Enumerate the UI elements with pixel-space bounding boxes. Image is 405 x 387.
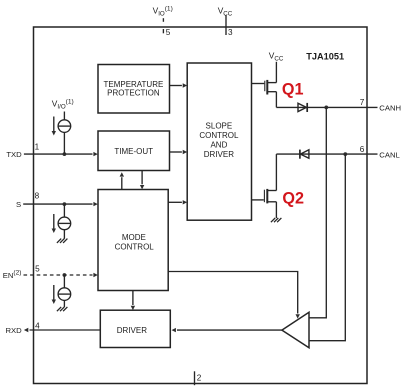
svg-text:CONTROL: CONTROL xyxy=(199,131,239,140)
svg-text:Q1: Q1 xyxy=(282,80,304,98)
ground (below I3) xyxy=(57,307,61,311)
svg-text:4: 4 xyxy=(35,322,40,331)
svg-text:CONTROL: CONTROL xyxy=(115,242,155,251)
svg-text:TEMPERATURE: TEMPERATURE xyxy=(103,80,163,89)
svg-text:7: 7 xyxy=(360,98,365,107)
svg-text:3: 3 xyxy=(228,28,233,37)
op-amp receiver xyxy=(282,312,309,347)
wire mode control to driver (down arrow) xyxy=(132,291,134,306)
block temperature protection xyxy=(98,65,170,114)
diode D1 (to CANH) xyxy=(298,103,306,111)
wire CANH line xyxy=(276,106,377,108)
transistor Q2 xyxy=(275,154,277,190)
svg-text:8: 8 xyxy=(35,192,40,201)
block time-out xyxy=(98,131,170,171)
wire time-out to mode control (down arrow) xyxy=(141,171,143,185)
node EN junction xyxy=(63,273,67,277)
svg-text:6: 6 xyxy=(360,145,365,154)
svg-text:TIME-OUT: TIME-OUT xyxy=(114,147,153,156)
svg-text:RXD: RXD xyxy=(5,326,22,335)
diode D2 (from CANL) xyxy=(300,150,309,159)
block mode control xyxy=(98,190,168,291)
wire temperature protection to slope control xyxy=(170,85,182,87)
wire pin5 VIO dashed supply xyxy=(162,18,164,22)
svg-text:VIO(1): VIO(1) xyxy=(153,5,173,17)
svg-text:VCC: VCC xyxy=(269,51,284,63)
svg-text:MODE: MODE xyxy=(122,233,146,242)
svg-text:PROTECTION: PROTECTION xyxy=(107,89,160,98)
node S junction xyxy=(63,202,67,206)
arrow current direction I1 xyxy=(53,117,55,132)
svg-text:TJA1051: TJA1051 xyxy=(306,52,344,62)
block slope control and driver xyxy=(187,63,251,220)
current source I1 (TXD pull-up) xyxy=(63,112,65,120)
wire slope control to Q2 gate xyxy=(252,199,264,201)
wire mode control to receiver enable xyxy=(168,272,298,314)
svg-text:Q2: Q2 xyxy=(282,189,304,207)
ground (Q2 source) xyxy=(271,218,275,222)
svg-text:5: 5 xyxy=(166,28,171,37)
svg-text:EN(2): EN(2) xyxy=(3,270,22,280)
wire RXD output xyxy=(30,329,101,331)
node CANH junction xyxy=(324,106,328,110)
svg-text:CANL: CANL xyxy=(379,150,400,159)
svg-text:DRIVER: DRIVER xyxy=(204,150,234,159)
svg-text:SLOPE: SLOPE xyxy=(206,122,233,131)
wire CANL to receiver input xyxy=(310,154,346,341)
block driver xyxy=(100,310,170,347)
wire S input xyxy=(23,203,92,205)
current source I3 (EN pull-up) xyxy=(63,275,65,288)
wire EN input dashed xyxy=(24,274,93,276)
pin 2 ground tick xyxy=(194,371,196,385)
node TXD junction xyxy=(63,152,67,156)
wire pin3 VCC supply xyxy=(225,16,227,36)
wire CANH to receiver input xyxy=(310,107,327,317)
wire mode control to slope control xyxy=(168,201,182,203)
outer device boundary box xyxy=(34,27,368,384)
ground (below I2) xyxy=(57,239,61,243)
arrow current direction I3 xyxy=(53,285,55,300)
wire TXD input xyxy=(24,153,93,155)
svg-text:5: 5 xyxy=(35,265,40,274)
svg-text:VI/O(1): VI/O(1) xyxy=(52,99,74,111)
wire CANL line xyxy=(276,153,377,155)
svg-text:CANH: CANH xyxy=(379,104,401,113)
wire receiver output to driver xyxy=(177,329,282,331)
svg-text:TXD: TXD xyxy=(6,150,22,159)
wire time-out to mode control (up arrow) xyxy=(121,177,123,189)
svg-text:S: S xyxy=(16,200,21,209)
svg-text:2: 2 xyxy=(197,374,202,383)
svg-text:VCC: VCC xyxy=(218,5,233,17)
current source I2 (S pull-up) xyxy=(63,204,65,217)
wire time-out to slope control xyxy=(170,151,182,153)
arrow current direction I2 xyxy=(53,214,55,229)
transistor Q1 xyxy=(264,81,266,92)
svg-text:DRIVER: DRIVER xyxy=(117,326,147,335)
svg-text:AND: AND xyxy=(210,141,227,150)
wire slope control to Q1 gate xyxy=(252,83,265,85)
svg-text:1: 1 xyxy=(35,143,40,152)
node CANL junction xyxy=(343,152,347,156)
